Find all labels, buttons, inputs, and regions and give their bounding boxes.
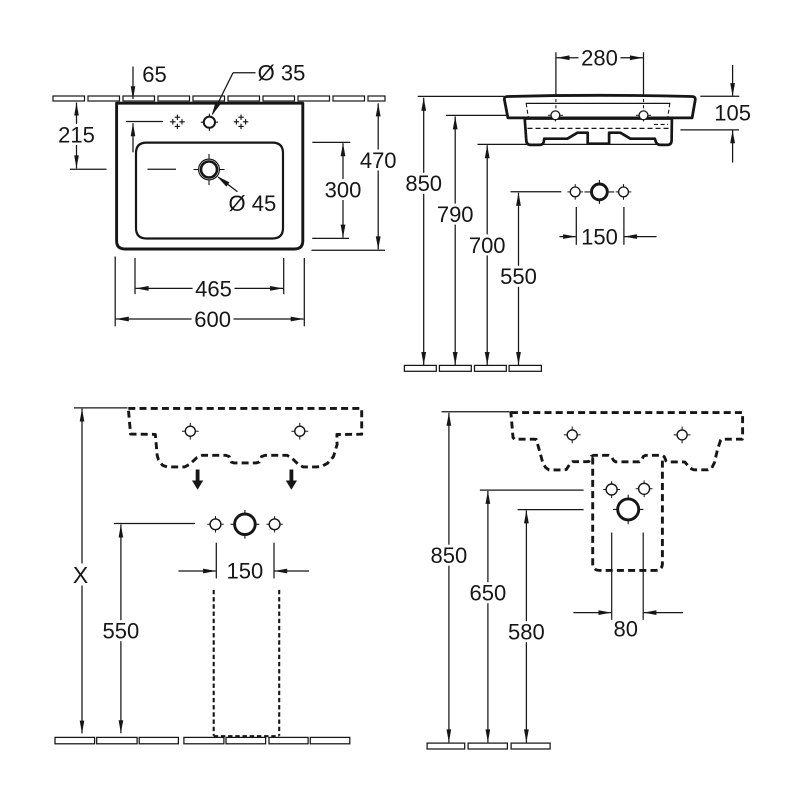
svg-text:105: 105 <box>714 100 751 125</box>
svg-text:600: 600 <box>194 307 231 332</box>
svg-text:550: 550 <box>103 619 140 644</box>
svg-text:150: 150 <box>581 225 618 250</box>
svg-text:Ø 35: Ø 35 <box>258 61 306 86</box>
svg-text:580: 580 <box>508 620 545 645</box>
svg-text:X: X <box>73 562 88 588</box>
svg-text:215: 215 <box>58 122 95 147</box>
svg-text:850: 850 <box>405 171 442 196</box>
svg-text:470: 470 <box>360 148 397 173</box>
svg-text:465: 465 <box>195 276 232 301</box>
svg-text:Ø 45: Ø 45 <box>229 191 277 216</box>
svg-text:700: 700 <box>469 233 506 258</box>
svg-text:280: 280 <box>581 46 618 71</box>
svg-text:300: 300 <box>325 177 362 202</box>
svg-text:150: 150 <box>227 559 264 584</box>
svg-text:80: 80 <box>613 617 637 642</box>
svg-text:850: 850 <box>431 543 468 568</box>
svg-text:790: 790 <box>437 202 474 227</box>
svg-text:650: 650 <box>470 581 507 606</box>
svg-text:65: 65 <box>142 62 166 87</box>
svg-text:550: 550 <box>500 264 537 289</box>
